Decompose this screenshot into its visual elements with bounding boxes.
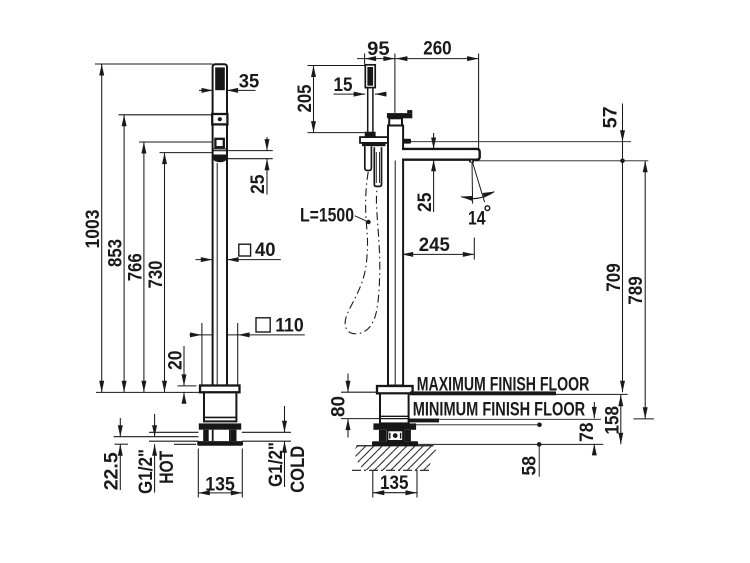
floor bottom dash-dot line (352, 469, 431, 471)
wire floor line left view (96, 391, 200, 393)
floor top line (357, 445, 434, 447)
svg-text:HOT: HOT (157, 450, 178, 483)
wire dim-789 shaft (644, 161, 646, 419)
spout (402, 149, 480, 160)
wire dim-57-709 shaft (622, 104, 624, 393)
stream angled line (473, 163, 485, 203)
base plate (197, 441, 243, 446)
shower collar (365, 132, 376, 137)
node dim-25L arrows (265, 139, 270, 151)
label square-40 (239, 244, 251, 256)
wire dim-22.5 shaft (119, 418, 121, 437)
riser column (388, 126, 403, 386)
base left block right view (379, 430, 386, 442)
wire dim-766 vertical line (143, 142, 145, 392)
node dim-789 arrows (643, 161, 648, 173)
wire dim-135R dim line (373, 492, 417, 494)
node dim-40 arrows (201, 257, 213, 262)
square button (215, 139, 223, 147)
base collar (199, 423, 241, 429)
wire dim-78 shaft (593, 402, 595, 418)
wire hose-level line with dot (411, 424, 540, 426)
node dim-22.5 arrows (118, 425, 123, 437)
svg-text:25: 25 (248, 174, 269, 194)
wire dim-20 shaft and tick (183, 346, 185, 386)
svg-text:135: 135 (380, 473, 409, 494)
wire dim-205 shaft (313, 66, 315, 133)
column inner highlight line (216, 163, 218, 385)
node dim-110 arrows (190, 332, 202, 337)
svg-text:22.5: 22.5 (102, 452, 123, 490)
wire dim-1003 vertical line (101, 64, 103, 392)
wire dim-730 vertical line (164, 153, 166, 393)
riser inner highlight (394, 161, 396, 386)
svg-text:57: 57 (601, 106, 622, 128)
base collar right view (373, 423, 416, 429)
wire ext riser axis (394, 54, 396, 113)
node dim-205 arrows (311, 66, 316, 78)
node dim-25R arrows (431, 138, 436, 150)
svg-text:95: 95 (367, 39, 390, 60)
wire dim-245 line (402, 253, 475, 255)
stream vertical line (471, 163, 474, 204)
hand shower dark face (215, 67, 225, 90)
wire dim-135R ext lines (372, 470, 374, 498)
wire base-bottom level line (418, 443, 603, 445)
lever neck (389, 118, 402, 125)
node dim-95 arrows (365, 56, 377, 61)
wire dim-80 shaft (347, 374, 349, 393)
holder band top line (213, 148, 227, 150)
wire dim-G12-cold shaft (284, 406, 286, 432)
node dim-766 arrows (141, 142, 146, 154)
wire dim-25 left shaft (266, 137, 268, 151)
lever handle bar (387, 113, 412, 118)
node dim-G12-hot arrows (152, 425, 157, 437)
wire dim-58 line (538, 444, 540, 476)
label square-110 (256, 318, 270, 332)
node hose level dots (537, 423, 542, 428)
base center lines (212, 430, 214, 441)
base flange right view (377, 386, 413, 393)
wire min floor thin line (439, 418, 601, 420)
svg-text:135: 135 (205, 474, 235, 495)
wire dim 95-260 line (357, 58, 479, 60)
wire ext y114.8 (119, 114, 213, 116)
node dim-730 arrows (162, 153, 167, 165)
wire dim-110 line and ext lines (190, 334, 305, 336)
svg-text:158: 158 (603, 406, 624, 435)
svg-text:MAXIMUM FINISH FLOOR: MAXIMUM FINISH FLOOR (417, 375, 590, 396)
floor hatching (354, 446, 437, 470)
wire dim-853 vertical line (123, 115, 125, 393)
node dim-15 arrows (354, 92, 366, 97)
svg-text:78: 78 (577, 423, 598, 443)
svg-text:80: 80 (329, 396, 350, 417)
angle arc 14deg (461, 192, 494, 199)
svg-text:40: 40 (255, 240, 276, 261)
base right block (231, 430, 237, 441)
hand shower head (365, 65, 375, 88)
wire line B spout outlet level (475, 160, 649, 162)
base right block right view (404, 430, 411, 442)
wire cold pipe lines (242, 431, 291, 433)
wire ext y142 (139, 141, 212, 143)
node dim-158 arrows (618, 395, 623, 407)
svg-text:G1/2": G1/2" (136, 449, 157, 494)
svg-text:G1/2": G1/2" (266, 442, 287, 487)
node dim-135R arrows (373, 490, 385, 495)
wire ext shower axis (364, 54, 366, 65)
L=1500 leader (355, 216, 368, 222)
node dim-78 arrows (592, 407, 597, 419)
wire dim-135 left ext lines (197, 449, 199, 498)
wire ext top of column y64 (95, 63, 213, 65)
node dim-35 arrows (202, 88, 214, 93)
max finish floor thick bar (410, 391, 556, 395)
wire dim-40 line (196, 259, 213, 261)
wire dim-25R shaft (433, 133, 435, 149)
hose dash-dot loop (345, 172, 380, 334)
column outer body (213, 64, 227, 385)
wire hot pipe lines (149, 431, 199, 433)
node dim-260 arrows (396, 56, 408, 61)
wire ext y65.5 (308, 65, 366, 67)
svg-text:853: 853 (106, 239, 127, 267)
base center box (387, 430, 403, 441)
lever nub (407, 110, 412, 113)
diverter box (212, 114, 227, 124)
svg-text:15: 15 (334, 75, 353, 96)
shower handle hanging (365, 146, 372, 170)
wire dim-158 shaft (620, 395, 622, 444)
holder dark collar (214, 155, 227, 160)
svg-text:245: 245 (419, 235, 450, 256)
node dim-57 arrow (620, 130, 625, 142)
node dim-1003 arrows (99, 64, 104, 76)
wire dim-25 left ext lines (227, 150, 273, 152)
wire ext spout tip (478, 54, 480, 149)
node dim-135L arrows (198, 490, 210, 495)
svg-text:205: 205 (295, 84, 316, 112)
diverter dot (218, 117, 222, 121)
node dim-20 arrows (182, 374, 187, 386)
svg-text:MINIMUM FINISH FLOOR: MINIMUM FINISH FLOOR (413, 400, 586, 421)
svg-text:709: 709 (604, 263, 625, 292)
svg-text:25: 25 (415, 192, 436, 212)
wire dim-G12-hot shaft (154, 414, 156, 437)
wire line A 57-level (411, 141, 631, 143)
hose connector hanging (374, 147, 381, 186)
svg-text:789: 789 (626, 276, 647, 305)
wire ext y152.6 (160, 152, 213, 154)
base body right view (380, 393, 409, 423)
base flange (200, 386, 240, 393)
spout outlet nub (469, 160, 474, 163)
side knob (403, 139, 411, 144)
base body (204, 392, 236, 421)
base plate right view (372, 441, 418, 445)
svg-text:1003: 1003 (83, 210, 104, 249)
holder bracket bar (360, 137, 389, 143)
min finish floor thick bar (409, 419, 439, 423)
svg-text:20: 20 (166, 351, 187, 371)
wire max floor thin line (556, 393, 628, 395)
svg-text:L=1500: L=1500 (300, 206, 354, 227)
svg-text:58: 58 (520, 456, 541, 476)
svg-text:730: 730 (146, 261, 167, 289)
svg-text:14: 14 (468, 209, 486, 230)
holder bracket lip (362, 143, 386, 146)
base left block (203, 430, 209, 441)
wire ext y132.6 (308, 132, 365, 134)
node dim-853 arrows (122, 115, 127, 127)
svg-text:766: 766 (126, 253, 147, 281)
wire dim-15 lines (334, 93, 366, 95)
wire dim-35 lines (199, 89, 213, 91)
svg-text:35: 35 (239, 72, 260, 93)
node dim-G12-cold arrows (282, 421, 287, 433)
svg-text:COLD: COLD (288, 446, 309, 493)
hand shower rod (367, 88, 369, 132)
wire dim-135 left dim line (198, 492, 242, 494)
node dim-245 arrows (402, 252, 414, 257)
node dim-80 arrows (346, 381, 351, 393)
svg-text:110: 110 (275, 316, 304, 337)
node dim-709 arrow and dot (620, 381, 625, 393)
svg-text:260: 260 (423, 38, 452, 59)
